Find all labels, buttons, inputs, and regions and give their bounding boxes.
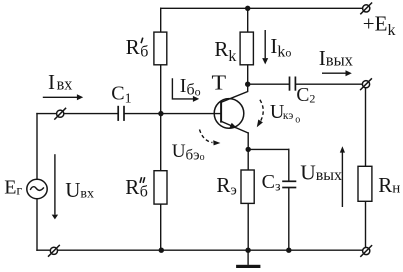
svg-text:R: R	[125, 175, 139, 199]
svg-text:T: T	[212, 71, 227, 94]
svg-text:б: б	[140, 184, 148, 201]
svg-text:I: I	[48, 70, 55, 94]
svg-text:R: R	[126, 35, 140, 59]
svg-text:б: б	[140, 44, 148, 61]
svg-text:вх: вх	[57, 75, 73, 94]
